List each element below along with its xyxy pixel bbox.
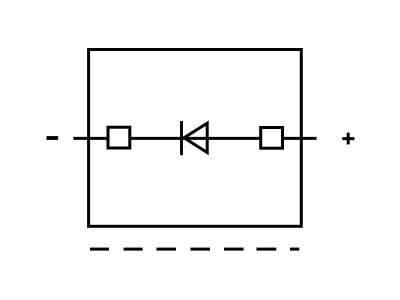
- module body outline: [89, 50, 302, 227]
- terminal T2 (right clamp square): [261, 128, 283, 149]
- diode D1: [182, 121, 208, 155]
- wire (through conductor): [73, 137, 316, 140]
- negative polarity label (-): [47, 136, 59, 140]
- dashed mounting-rail line: [90, 248, 299, 251]
- terminal T1 (left clamp square): [108, 127, 130, 148]
- positive polarity label (+): [342, 133, 354, 145]
